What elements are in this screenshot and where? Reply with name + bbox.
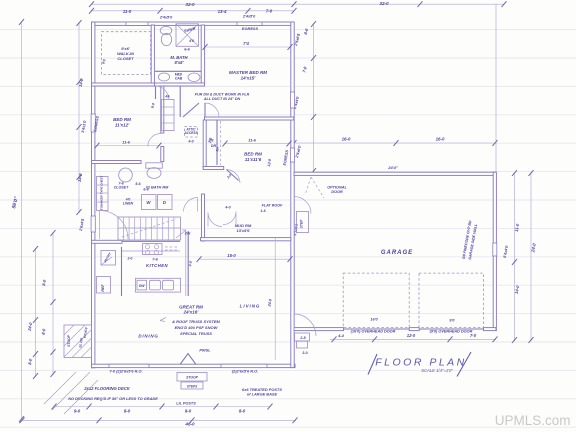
svg-text:STOOP: STOOP [67,334,71,347]
svg-text:DW: DW [139,284,145,288]
mud room door arc right [223,212,236,225]
refrigerator box [97,277,111,294]
svg-text:46-0: 46-0 [184,421,195,426]
angled furnace closet door [183,103,199,117]
interior vertical dim line x275 [274,238,276,360]
kitchen counter top edge [122,240,180,242]
svg-text:BED RM11'x11'6: BED RM11'x11'6 [244,152,262,162]
furnace closet west wall [179,86,181,117]
kitchen left column wall [121,247,123,296]
garage outer right dimension line 24-0 [529,170,534,343]
hall door arc b [184,198,198,212]
staircase with treads [118,217,181,240]
window garage right wall [493,243,497,256]
hall bath toilet [146,163,163,179]
svg-text:7-0: 7-0 [470,333,477,338]
svg-text:(16'0) OVERHEAD DOOR: (16'0) OVERHEAD DOOR [351,330,396,334]
svg-text:32-0: 32-0 [185,2,195,7]
bedroom3 entry door arc [227,170,241,184]
garage top wall [294,172,496,175]
window right wall master [290,92,294,108]
garage bottom wall line with door openings [294,328,496,330]
svg-text:4A: 4A [164,95,170,99]
master bath bottom wall [155,83,205,86]
left stoop hatched box [64,325,92,358]
svg-text:9-0: 9-0 [74,409,81,414]
svg-text:16-0: 16-0 [342,137,351,142]
kitchen island outline [136,278,181,292]
svg-text:5'SHAKER TYPE CHEST: 5'SHAKER TYPE CHEST [100,174,104,210]
master bath right wall [201,25,204,83]
arrow under truss note [160,318,166,322]
floor plan title slash left [368,354,377,375]
center stoop rectangle [177,373,207,382]
svg-text:STOOP: STOOP [186,376,199,380]
svg-text:GARAGE: GARAGE [381,250,413,256]
garage bottom dimension line 12-0/9-0 [330,336,498,342]
shower stall with X in master bath [176,24,199,47]
window left wall dining [91,216,95,232]
svg-text:4-0: 4-0 [224,206,230,210]
bedroom3 bottom wall stub [203,167,224,170]
pantry box [101,251,116,266]
svg-text:32-0: 32-0 [379,1,389,6]
svg-text:(2)2'6x5'6 R.O.: (2)2'6x5'6 R.O. [232,369,259,374]
svg-text:7-0 (2)2'6x5'6 R.O.: 7-0 (2)2'6x5'6 R.O. [109,369,142,374]
svg-text:7'4: 7'4 [243,41,249,46]
svg-text:3-0: 3-0 [302,351,307,355]
patio slider triangle mark [180,354,196,365]
dryer box D [158,195,173,210]
svg-text:REF: REF [101,284,105,292]
svg-text:15-0: 15-0 [227,253,236,258]
svg-text:9'0: 9'0 [449,319,455,323]
optional door dashed swing [305,177,324,198]
bedroom2 door arc [148,134,161,147]
svg-text:(9'0) OVERHEAD DOOR: (9'0) OVERHEAD DOOR [430,330,473,334]
svg-text:16-0: 16-0 [436,137,445,142]
exterior left wall of house [92,22,95,368]
bedroom2 / hall divider wall [161,86,164,133]
bedroom3 interior dim line [223,141,292,147]
hallway wall above kitchen [202,194,205,241]
bedroom3 closet line [216,121,218,166]
svg-text:8-0: 8-0 [124,409,131,414]
garage bottom wall segment middle [409,328,419,331]
garage entry step [297,212,309,233]
svg-text:4'0: 4'0 [188,39,194,43]
garage right wall [493,172,496,330]
svg-text:FLAT ROOF: FLAT ROOF [262,204,284,208]
svg-text:7-6: 7-6 [152,258,158,262]
svg-text:24'4": 24'4" [387,165,398,170]
svg-text:6x6 TREATED POSTSof LARGE BASE: 6x6 TREATED POSTSof LARGE BASE [242,387,282,397]
svg-text:#2 BATH RM: #2 BATH RM [146,186,169,190]
svg-text:DINING: DINING [138,334,158,339]
hall bath sink oval [119,168,133,182]
svg-text:STEPS: STEPS [187,385,198,389]
svg-text:11-6: 11-6 [248,138,256,143]
svg-text:7-0: 7-0 [266,8,273,13]
svg-text:16'0: 16'0 [370,318,378,322]
svg-text:KITCHEN: KITCHEN [146,263,169,268]
toilet in master bath [160,26,172,45]
svg-text:STEP: STEP [300,219,304,228]
window right wall bedroom3 egress [290,148,294,162]
svg-text:FLOOR PLAN: FLOOR PLAN [375,357,467,369]
svg-text:UPMLS.com: UPMLS.com [495,413,571,428]
garage door bay left dashed [343,273,409,328]
counter dashes right of cooktop [165,247,178,250]
svg-text:13-4: 13-4 [218,9,227,14]
bottom dimension line 9-0/8-0/8-0/8-0 [52,404,273,410]
wall segment left of kitchen [92,240,123,243]
garage bottom wall segment left [294,328,344,331]
window top wall bedroom2 closet [126,22,148,25]
kitchen counter inner edge [122,250,180,252]
svg-text:11-6: 11-6 [122,140,130,145]
hall door arc a [100,211,129,240]
left dimension line 24-0/8-0 [33,246,38,379]
window bottom wall living pair [221,364,267,367]
floor plan title slash right [457,352,471,377]
bottom overall dimension line 46-0 [20,417,298,423]
svg-text:LIVING: LIVING [240,304,261,309]
svg-text:LIL POSTS: LIL POSTS [176,402,196,406]
center steps rectangle [181,382,203,389]
svg-text:EGRESS: EGRESS [242,26,259,31]
closet/master-bath divider wall [151,25,154,83]
svg-text:2'4x5'0: 2'4x5'0 [159,16,173,20]
linen shelves next to bedroom2 [162,100,175,131]
exterior top wall of house [92,22,295,25]
svg-text:MUD RM13'x5'6: MUD RM13'x5'6 [235,223,252,233]
svg-text:2-8: 2-8 [299,336,305,340]
hall bath top wall [92,161,142,164]
bedroom2 interior dim line [95,143,162,149]
master / bedroom3 divider wall [205,117,294,120]
svg-text:4-0: 4-0 [187,140,193,144]
svg-text:6-6: 6-6 [184,48,190,52]
extension line from top dim to garage right wall [495,4,497,172]
mud room door arc left [208,213,222,227]
deck diagonal hatches [44,372,98,414]
interior dimension 7'4 master [203,44,293,50]
svg-text:8-0: 8-0 [185,409,192,414]
svg-text:11-0: 11-0 [123,9,132,14]
walk-in closet dashed outline [102,32,151,75]
overall top dimension line 32-0 + 32-0 [89,1,507,7]
door arc mud rm to garage [294,197,311,214]
second top dimension line 11-0 / 13-4 / 7-0 [89,8,297,14]
dishwasher box DW [137,280,147,290]
svg-text:12-0: 12-0 [407,333,416,338]
washer box W [142,195,157,210]
attic access dashed box [185,127,198,138]
svg-text:PR/SL: PR/SL [199,349,211,353]
window top wall master egress [237,22,262,25]
svg-text:BED RM11'x12': BED RM11'x12' [113,117,131,127]
right side steps [295,333,310,348]
garage bottom wall segment right [484,328,497,331]
bedroom3 left wall [203,120,206,168]
right dimension line near master bedroom [311,21,316,174]
mud room top wall [201,238,291,241]
kitchen/greatroom divider wall second line [185,231,187,296]
svg-text:4-4: 4-4 [337,333,345,338]
left outer dimension line 56'-0 [19,19,24,422]
bedroom3 closet dashed shelf [220,121,222,165]
stair arrow [176,230,186,238]
left dimension line 8-0/8-0 [51,230,56,377]
door arc hall to master bedroom [205,103,219,117]
shaker chest built-in [97,177,109,211]
walk-in closet bottom wall [92,83,156,86]
svg-text:SCALE 1/4"=1'0": SCALE 1/4"=1'0" [421,368,453,373]
window left wall bedroom2 [91,114,95,132]
island sink basin right [163,280,174,290]
svg-text:2'4x5'0: 2'4x5'0 [242,14,256,18]
svg-text:MEDCAB: MEDCAB [175,73,183,81]
island sink basin left [150,280,161,290]
garage right dimension line 12-0 [512,170,517,343]
master bath vanity counter [155,70,201,72]
svg-text:8-0: 8-0 [239,409,246,414]
exterior right wall of house / garage left wall [291,22,294,368]
garage top dimension line 16-0 + 16-0 [292,140,498,146]
garage door bay right dashed [419,273,484,328]
svg-text:2x12 FLOORING DECK: 2x12 FLOORING DECK [83,386,131,391]
interior dimension 15-0 great room [197,256,293,262]
svg-text:2-0: 2-0 [127,257,133,261]
vanity sink left master bath [158,73,169,81]
left dimension line 14-0/14-0 [77,20,82,215]
cooktop with burners [143,244,163,255]
exterior bottom wall of house [92,364,296,367]
window bottom wall dining pair [109,364,149,367]
kitchen/greatroom divider wall [187,231,189,296]
vanity sink right master bath [188,73,200,82]
bedroom2 wall lower segment [161,147,164,162]
door arc hall to master bath [156,86,169,99]
door arc bottom right corner [294,314,316,336]
